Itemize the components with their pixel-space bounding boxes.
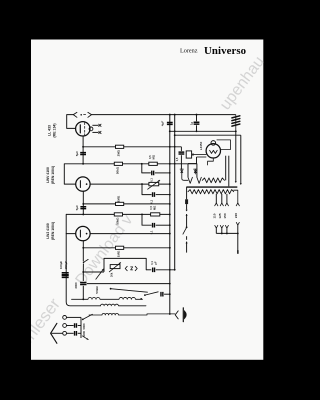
node V1 junction H2 <box>82 146 84 148</box>
wire transformer bar2 <box>187 187 238 189</box>
wire to cap 3000 <box>82 272 84 281</box>
capacitor 300uF <box>62 275 69 277</box>
wire rect right b <box>228 156 230 187</box>
wire mains lead 2 <box>186 242 188 253</box>
wire V1 heater a <box>92 124 98 126</box>
node V3 chain row A <box>82 298 84 300</box>
wire tap 110 <box>215 194 217 203</box>
node sel a <box>221 232 223 234</box>
switch pivot row294 <box>144 294 146 296</box>
node V2 cathode-H6 <box>82 213 84 215</box>
svg-text:MΩ: MΩ <box>151 155 155 159</box>
wire heater riser <box>196 157 198 164</box>
svg-text:300μF: 300μF <box>64 261 68 269</box>
tube V1 grid dashes <box>84 123 86 136</box>
jack bracket left <box>125 266 127 270</box>
wire stub 1uF lower <box>196 125 198 131</box>
fuse <box>185 199 188 204</box>
wire tap 220 upper <box>234 190 238 203</box>
tap sockets lower hooks <box>215 225 218 228</box>
resistor wirewound dropper <box>202 178 224 183</box>
capacitor 0.1uF stage3 <box>153 223 155 228</box>
tap 220 arrow hook <box>236 203 239 206</box>
antenna bracket <box>51 323 57 343</box>
node sel c <box>237 232 239 234</box>
svg-text:LWV 4100: LWV 4100 <box>46 167 50 183</box>
wire selector bar <box>216 232 238 234</box>
switch arm lower <box>110 288 112 290</box>
svg-text:LWJ 4100: LWJ 4100 <box>46 223 50 239</box>
jack bracket right <box>135 266 137 270</box>
svg-text:150: 150 <box>223 213 227 218</box>
svg-text:100μF: 100μF <box>59 261 63 269</box>
capacitor 100uF <box>62 273 69 275</box>
node H3-V2bus <box>174 163 176 165</box>
arrow input <box>82 336 88 340</box>
wire cap3 to bus <box>156 224 170 226</box>
wire cap b to bar <box>78 332 81 334</box>
resistor 50k stage2 <box>114 213 122 216</box>
wire H2 left <box>83 146 115 148</box>
wire H283 bus <box>87 283 170 285</box>
wire cap2 to bus <box>156 194 170 196</box>
svg-text:20k: 20k <box>110 272 114 277</box>
heater winding right group <box>196 164 198 178</box>
node H2-V1bus <box>169 146 171 148</box>
wire tap 150 <box>226 194 228 203</box>
node V2 junction H5 <box>82 203 84 205</box>
rectifier filament V marks <box>210 150 218 153</box>
wire tube V3 cathode down <box>82 241 84 261</box>
node H6-bus <box>169 213 171 215</box>
wire H131 <box>170 130 236 132</box>
svg-text:50kΩ: 50kΩ <box>115 217 119 225</box>
capacitor 5uF stage2 <box>80 207 86 209</box>
wire frame to cap <box>146 269 151 271</box>
wire dropper bottom <box>180 155 182 169</box>
resistor 1M stage2 <box>116 202 124 205</box>
node cap pickup bus2 <box>174 269 176 271</box>
wire tube V1 grid hook <box>67 115 76 129</box>
node V3 cathode-H8 <box>82 247 84 249</box>
wire rect right a <box>225 156 227 181</box>
wire jack frame <box>104 258 146 271</box>
output jack dash <box>84 114 86 116</box>
svg-text:220: 220 <box>234 213 238 218</box>
switch contact detector <box>83 261 85 263</box>
socket 3 <box>63 331 67 335</box>
svg-text:Universo: Universo <box>204 45 246 57</box>
node H5-bus <box>169 203 171 205</box>
tube V3 grid bar <box>79 230 81 237</box>
node H131 stub <box>196 130 198 132</box>
tube rectifier pinch <box>211 141 216 146</box>
wire tube V3 grid hook <box>66 214 75 233</box>
capacitor 1uF <box>194 122 200 124</box>
pot arrow regen <box>96 269 104 279</box>
wire bus V1 main <box>169 115 171 314</box>
resistor barretter primary <box>188 190 234 194</box>
svg-text:1MΩ: 1MΩ <box>117 195 121 202</box>
capacitor 5uF stage1 <box>80 153 86 155</box>
wire socket2 <box>67 325 74 327</box>
wire bus V2 main <box>174 115 176 270</box>
wire plug lower <box>186 214 188 227</box>
socket 1 <box>63 316 67 320</box>
wire switch lower <box>186 236 188 240</box>
coil row A left <box>72 297 143 299</box>
svg-text:110: 110 <box>213 213 217 218</box>
wire grid branch right <box>83 271 104 273</box>
node H3-V1bus <box>169 163 171 165</box>
wire fuse bottom <box>186 204 188 210</box>
node stub 1uF top <box>196 114 198 116</box>
wire cap pickup to bus <box>156 269 175 271</box>
wire to coil row A <box>82 286 84 300</box>
resistor 1M stage3 <box>116 246 124 249</box>
wire H4 anode V2 <box>90 183 170 185</box>
svg-text:5000: 5000 <box>82 323 86 329</box>
wire left bus down <box>66 234 100 306</box>
wire rectifier anode loop <box>217 140 231 150</box>
resistor 50k stage1 <box>114 162 122 165</box>
tube V2 grid bar <box>79 181 81 188</box>
wire tap 125 <box>221 194 223 203</box>
output jack bracket right <box>88 112 92 117</box>
choke coil <box>235 115 237 132</box>
coil row B <box>101 304 147 306</box>
node H8-bus <box>169 247 171 249</box>
wire socket3 <box>67 332 74 334</box>
output jack dot <box>80 114 82 116</box>
switch mains arm <box>183 227 187 234</box>
svg-text:5μF: 5μF <box>75 151 79 157</box>
wire tap B down <box>240 135 242 183</box>
node sel b <box>226 232 228 234</box>
wire H3 bus <box>64 163 196 165</box>
svg-text:0,5: 0,5 <box>148 155 152 159</box>
heater terminal X a <box>99 124 102 127</box>
node cap2-bus <box>169 194 171 196</box>
tube V2 anode dot <box>86 183 88 185</box>
wire heater riser top <box>197 156 207 158</box>
tube rectifier envelope <box>206 144 220 158</box>
wire cap a to bar <box>78 325 81 327</box>
tube V2 envelope <box>76 177 90 191</box>
wire H6 bus <box>66 213 170 215</box>
svg-text:1MΩ: 1MΩ <box>117 250 121 257</box>
node ground wire bus <box>169 313 171 315</box>
node H283-bus <box>169 283 171 285</box>
svg-text:0,5: 0,5 <box>149 206 153 210</box>
svg-text:0,1: 0,1 <box>150 199 154 203</box>
node bus V2 top <box>174 114 176 116</box>
resistor heater 1.5 <box>186 151 191 158</box>
resistor 2M stage1 <box>116 145 124 148</box>
wire H4 branch <box>142 184 151 195</box>
svg-text:(REN 1004): (REN 1004) <box>51 222 55 240</box>
tube V1 base circle <box>89 127 93 131</box>
capacitor 0.1uF stage2 <box>153 192 155 197</box>
wire rectifier cathode L <box>208 158 214 165</box>
wire heater res to rect tube <box>192 154 207 156</box>
svg-text:3000: 3000 <box>74 282 78 289</box>
node bus V1 top <box>169 114 171 116</box>
svg-text:50kΩ: 50kΩ <box>95 286 99 294</box>
svg-text:(REN 1004): (REN 1004) <box>51 166 55 184</box>
svg-text:LL 433: LL 433 <box>48 125 52 136</box>
capacitor 3000 <box>80 283 86 285</box>
wire row294 to bus <box>164 293 170 295</box>
tube V1 anode bar <box>79 125 81 133</box>
wire H3 branch <box>142 164 151 173</box>
wire heater top join <box>188 163 197 165</box>
wire fuse top <box>186 187 188 200</box>
wire H135 <box>175 134 241 136</box>
node row A right <box>140 298 142 300</box>
svg-text:μF: μF <box>154 261 158 265</box>
wire tube V2 grid hook <box>64 164 75 184</box>
svg-text:2MΩ: 2MΩ <box>117 149 121 156</box>
node H6 tap <box>141 213 143 215</box>
wire transformer bar <box>187 185 238 187</box>
capacitor filter a <box>75 323 77 328</box>
node cap1-bus <box>169 172 171 174</box>
output jack bracket left <box>73 112 77 117</box>
svg-text:1,5: 1,5 <box>175 157 179 161</box>
svg-text:125: 125 <box>218 213 222 218</box>
switch pivot input <box>82 319 84 321</box>
wire dropper top <box>180 147 182 151</box>
wire below switch <box>82 264 84 273</box>
heater winding left group <box>187 164 189 178</box>
node choke bottom <box>235 130 237 132</box>
node 4uF bottom <box>169 130 171 132</box>
capacitor filter b <box>75 331 77 336</box>
svg-text:0,1: 0,1 <box>150 261 154 265</box>
tube V1 envelope <box>76 122 90 136</box>
svg-text:5μF: 5μF <box>75 205 79 211</box>
coil row C + ground wire <box>89 314 175 315</box>
svg-text:MΩ: MΩ <box>153 206 157 210</box>
node V1 cathode-H3 <box>82 163 84 165</box>
plug gap arrow up <box>186 214 188 216</box>
potentiometer 20k pickup <box>110 265 120 269</box>
node H7-bus <box>169 233 171 235</box>
resistor 0.5M stage1 <box>149 162 158 165</box>
resistor 0.5M stage2 <box>151 213 160 216</box>
node H131 v2 <box>174 130 176 132</box>
tube V3 envelope <box>76 226 90 240</box>
wire antenna to socket <box>52 332 63 334</box>
wire tap A down <box>235 131 237 181</box>
node cap3-bus <box>169 224 171 226</box>
pot arrow 2M <box>148 180 160 189</box>
node H4 tap <box>141 183 143 185</box>
svg-text:50kΩ: 50kΩ <box>115 166 119 174</box>
wire mains lead <box>237 233 239 251</box>
node H2-V2bus <box>174 146 176 148</box>
node row294-bus <box>169 293 171 295</box>
svg-text:(RE 134): (RE 134) <box>53 123 57 137</box>
capacitor 4uF <box>167 122 173 124</box>
svg-text:L3450: L3450 <box>199 141 203 150</box>
tap 125 arrow hook <box>220 203 223 206</box>
wire tube V2 cathode down <box>82 191 84 214</box>
potentiometer 2M <box>149 182 159 185</box>
heater terminal X b <box>99 131 102 134</box>
pot arrow pickup <box>109 263 120 272</box>
svg-text:4μF: 4μF <box>160 121 164 127</box>
node grid branch <box>82 271 84 273</box>
capacitor 0.1uF pickup <box>153 268 155 273</box>
wire H5 right <box>124 203 170 205</box>
wire V1 heater b <box>92 131 98 133</box>
wire cap1 to bus <box>155 172 170 174</box>
node H4-bus <box>169 183 171 185</box>
tap 150 arrow hook <box>225 203 228 206</box>
svg-text:Lorenz: Lorenz <box>180 48 198 55</box>
wire socket1 <box>67 316 82 318</box>
node cap pickup bus1 <box>169 269 171 271</box>
switch arm row294 <box>145 292 158 295</box>
switch arm input to coil <box>83 314 93 319</box>
wire H8 <box>83 247 170 249</box>
chassis ground symbol <box>175 311 178 319</box>
wire H5 left <box>83 203 115 205</box>
wire input bar <box>80 317 82 338</box>
node H135 v2 <box>174 134 176 136</box>
switch mains pivot <box>186 226 188 228</box>
capacitor 5000 row294 <box>161 292 163 297</box>
wire top bus H1 <box>92 114 236 116</box>
node H3 tap <box>141 163 143 165</box>
jack squiggle <box>131 267 133 270</box>
socket 2 <box>63 324 67 328</box>
tube V3 anode dot <box>86 233 88 235</box>
switch arm detector <box>84 259 89 262</box>
wire stub 1uF <box>196 115 198 122</box>
wire H7 anode V3 <box>90 233 170 235</box>
white scanned page <box>31 40 263 360</box>
wire H6 branch <box>142 214 151 225</box>
capacitor 0.1uF stage1 <box>152 171 154 176</box>
wire tube V1 cathode down <box>82 136 84 164</box>
wire H2 right <box>124 146 182 148</box>
capacitor dropper <box>179 152 185 154</box>
svg-text:0,1: 0,1 <box>150 178 154 182</box>
svg-text:1μ: 1μ <box>189 121 193 125</box>
tap 110 arrow hook <box>215 203 218 206</box>
